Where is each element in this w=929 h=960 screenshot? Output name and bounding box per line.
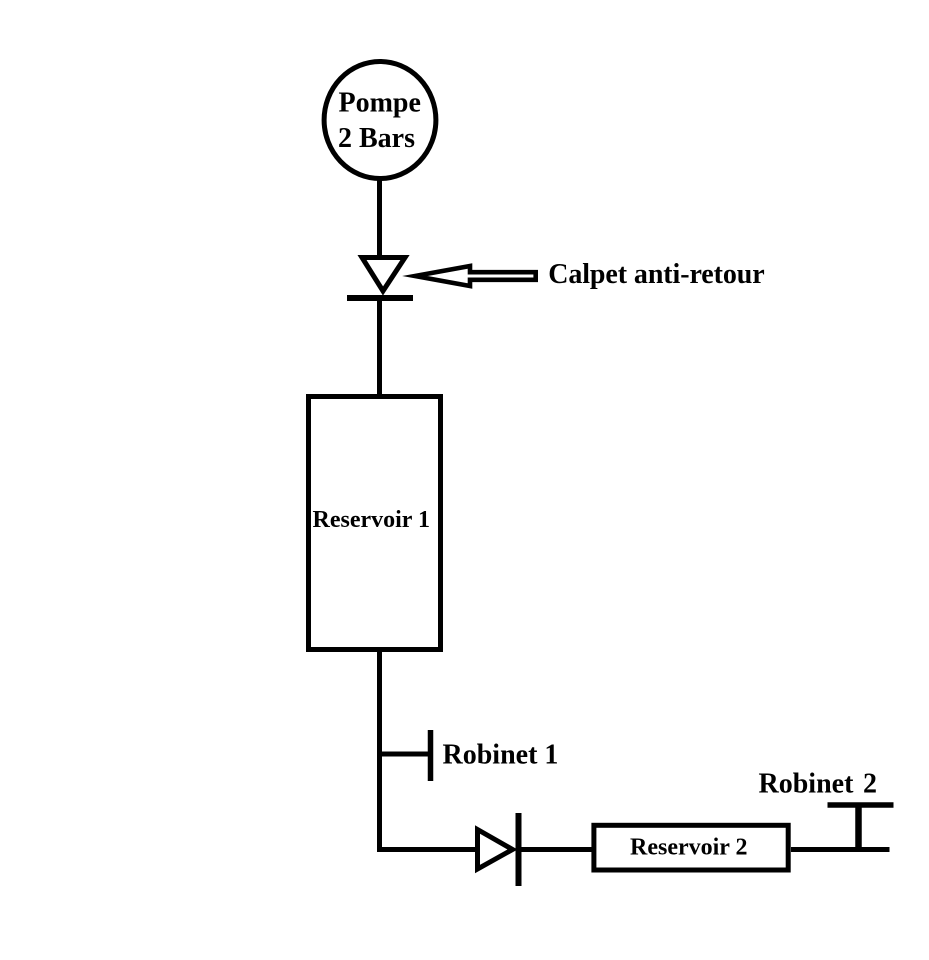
wire pump to check valve xyxy=(377,176,382,263)
reservoir 1 rectangle xyxy=(309,397,441,650)
check valve seat bar xyxy=(347,295,413,301)
svg-text:Reservoir 2: Reservoir 2 xyxy=(630,835,748,861)
check valve triangle xyxy=(362,258,405,292)
block arrow pointing at check valve xyxy=(415,266,536,286)
pump P1 circle xyxy=(324,62,436,179)
svg-text:2 Bars: 2 Bars xyxy=(338,123,415,154)
valve V2 triangle xyxy=(478,830,513,870)
svg-text:Robinet 2: Robinet 2 xyxy=(759,769,878,800)
svg-text:Calpet anti-retour: Calpet anti-retour xyxy=(548,259,765,290)
robinet 2 stem xyxy=(855,803,862,852)
svg-text:Pompe: Pompe xyxy=(339,88,421,119)
valve V2 bar xyxy=(516,813,522,886)
wire reservoir 2 to robinet 2 xyxy=(791,847,890,852)
svg-text:Reservoir 1: Reservoir 1 xyxy=(313,507,431,533)
wire check valve to reservoir 1 xyxy=(377,298,382,396)
reservoir 2 rectangle xyxy=(594,825,788,870)
tee branch wire to robinet 1 xyxy=(379,752,431,757)
svg-text:Robinet 1: Robinet 1 xyxy=(443,739,559,770)
robinet 1 bar xyxy=(428,730,434,781)
wire valve V2 to reservoir 2 xyxy=(521,847,594,852)
wire reservoir 1 down and elbow to right xyxy=(380,649,478,850)
robinet 2 top bar xyxy=(828,802,894,808)
